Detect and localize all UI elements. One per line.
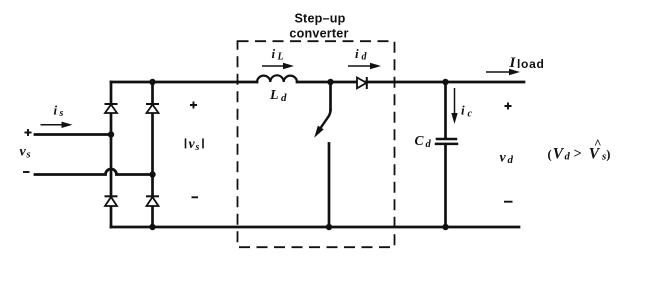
svg-text:d: d — [426, 139, 432, 150]
svg-text:): ) — [606, 148, 610, 162]
svg-text:d: d — [362, 52, 368, 63]
svg-text:converter: converter — [289, 27, 348, 41]
svg-text:d: d — [565, 152, 571, 163]
svg-text:v: v — [500, 151, 507, 166]
svg-text:(: ( — [548, 147, 552, 161]
svg-text:I: I — [509, 55, 517, 71]
svg-text:c: c — [468, 109, 473, 120]
svg-text:L: L — [277, 52, 284, 63]
svg-text:V: V — [589, 145, 601, 162]
svg-text:>: > — [574, 146, 582, 162]
svg-text:C: C — [415, 133, 425, 148]
svg-text:s: s — [195, 142, 200, 153]
svg-text:s: s — [59, 108, 64, 119]
svg-text:d: d — [508, 154, 514, 166]
svg-text:load: load — [517, 57, 544, 71]
svg-text:s: s — [26, 149, 31, 160]
svg-text:i: i — [355, 46, 359, 61]
svg-text:i: i — [54, 102, 58, 117]
svg-text:Step–up: Step–up — [294, 12, 345, 26]
svg-text:i: i — [272, 46, 276, 61]
svg-text:v: v — [189, 137, 196, 152]
svg-text:V: V — [553, 145, 565, 162]
svg-text:v: v — [20, 145, 27, 160]
svg-text:d: d — [281, 92, 287, 104]
svg-text:L: L — [269, 88, 279, 103]
svg-text:i: i — [461, 103, 465, 118]
